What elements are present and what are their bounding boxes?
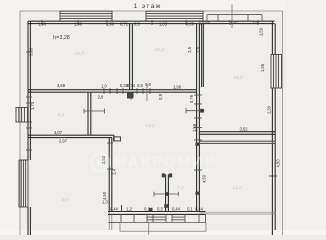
outer site boundary (thin) bbox=[20, 11, 283, 235]
svg-text:0,44: 0,44 bbox=[195, 206, 204, 211]
svg-text:1,50: 1,50 bbox=[259, 27, 264, 36]
hall left wall V-B bbox=[87, 92, 89, 135]
top-right порч band bbox=[207, 15, 262, 22]
svg-text:0,89: 0,89 bbox=[186, 21, 195, 26]
svg-text:0,5: 0,5 bbox=[134, 21, 140, 26]
svg-text:3,07: 3,07 bbox=[54, 130, 63, 135]
svg-text:2,5: 2,5 bbox=[196, 46, 201, 52]
wall H5 bottom of veranda room (light) bbox=[199, 212, 275, 214]
svg-text:15,7: 15,7 bbox=[74, 51, 84, 57]
svg-text:6,3: 6,3 bbox=[58, 112, 65, 118]
svg-text:М: М bbox=[97, 158, 105, 169]
svg-text:1,74: 1,74 bbox=[30, 101, 35, 110]
chimney stack line bbox=[231, 5, 233, 29]
left wall window 2 (tall) bbox=[19, 160, 28, 207]
svg-text:МАКРОМИР: МАКРОМИР bbox=[114, 155, 218, 171]
svg-text:0,9: 0,9 bbox=[137, 83, 143, 88]
faint room area labels bbox=[58, 47, 243, 203]
window top W2 bbox=[146, 11, 203, 21]
H2 end jog bbox=[113, 135, 115, 140]
svg-text:1,65: 1,65 bbox=[260, 63, 265, 72]
svg-text:1,98: 1,98 bbox=[106, 21, 115, 26]
svg-text:1,58: 1,58 bbox=[192, 123, 197, 132]
door jamb line left of porch bbox=[121, 205, 123, 212]
svg-text:4,50: 4,50 bbox=[202, 174, 207, 183]
svg-text:1,2: 1,2 bbox=[126, 206, 132, 211]
svg-text:0,76: 0,76 bbox=[189, 94, 194, 103]
door axis line below H1 bbox=[146, 84, 148, 101]
door cross room b / hall bbox=[84, 109, 105, 114]
svg-text:1,98: 1,98 bbox=[38, 21, 47, 26]
bottom exterior wall H6 bbox=[108, 211, 206, 213]
door cross at shaft V-D bbox=[154, 192, 178, 196]
svg-text:1 этаж: 1 этаж bbox=[133, 3, 161, 10]
svg-text:1,98: 1,98 bbox=[74, 21, 83, 26]
svg-text:0,3: 0,3 bbox=[157, 206, 163, 211]
svg-text:1,0: 1,0 bbox=[101, 84, 107, 89]
svg-text:3,69: 3,69 bbox=[57, 83, 66, 88]
left exterior wall (lower) bbox=[27, 207, 29, 235]
interior wall between room1 and room2 bbox=[129, 24, 131, 90]
door cross hall / right room bbox=[186, 108, 205, 113]
svg-text:0,8: 0,8 bbox=[253, 20, 259, 25]
svg-text:0,9: 0,9 bbox=[145, 82, 151, 87]
svg-text:1,98: 1,98 bbox=[173, 84, 182, 89]
top exterior wall bbox=[28, 20, 275, 22]
svg-text:13,1: 13,1 bbox=[145, 123, 155, 129]
left exterior wall (upper) bbox=[27, 21, 29, 160]
svg-text:14,4: 14,4 bbox=[154, 47, 164, 53]
svg-text:4,50: 4,50 bbox=[102, 191, 107, 200]
horizontal wall H1 bbox=[28, 89, 197, 91]
porch cells bottom bbox=[109, 214, 206, 222]
svg-text:2,5: 2,5 bbox=[187, 46, 192, 52]
right exterior wall bbox=[271, 21, 273, 54]
wall H3 bottom of top-right room bbox=[199, 131, 275, 133]
door pier block bbox=[127, 93, 134, 99]
svg-text:11,2: 11,2 bbox=[232, 185, 241, 191]
svg-text:1,85: 1,85 bbox=[159, 21, 168, 26]
svg-text:16,9: 16,9 bbox=[233, 75, 243, 81]
svg-text:h=3,28: h=3,28 bbox=[53, 35, 70, 41]
window top W1 bbox=[60, 11, 112, 21]
svg-text:0,84: 0,84 bbox=[202, 20, 211, 25]
dimension labels bbox=[38, 20, 260, 212]
svg-text:3,52: 3,52 bbox=[240, 126, 249, 131]
jamb blobs of V-D bbox=[162, 173, 165, 177]
tick marks on walls bbox=[26, 20, 277, 176]
svg-text:1,97: 1,97 bbox=[230, 20, 239, 25]
svg-text:0,9: 0,9 bbox=[158, 93, 163, 99]
horizontal wall H2 bbox=[28, 134, 114, 136]
right wall window bbox=[271, 55, 282, 89]
left wall window 1 bbox=[16, 107, 28, 122]
svg-text:3,55: 3,55 bbox=[29, 47, 34, 56]
jamb blobs on shaft wall bbox=[195, 143, 199, 146]
svg-text:2,97: 2,97 bbox=[59, 138, 68, 143]
svg-text:0,44: 0,44 bbox=[172, 206, 181, 211]
shaft wall V-D in bottom rooms bbox=[165, 175, 167, 212]
svg-text:7,3: 7,3 bbox=[177, 185, 184, 191]
svg-text:0,1: 0,1 bbox=[187, 206, 193, 211]
svg-text:4,50: 4,50 bbox=[276, 159, 281, 168]
shaft wall 2 bbox=[201, 24, 203, 87]
V-C wall between bottom-left room and hall bbox=[108, 138, 110, 212]
porch outer slab bbox=[120, 223, 206, 235]
watermark logo bbox=[92, 153, 110, 171]
svg-text:2,30: 2,30 bbox=[267, 105, 272, 114]
svg-text:0,74: 0,74 bbox=[127, 83, 136, 88]
svg-text:9,4: 9,4 bbox=[62, 197, 69, 203]
shaft wall 1 bbox=[196, 24, 198, 212]
svg-text:0,71: 0,71 bbox=[120, 21, 129, 26]
svg-text:0,1: 0,1 bbox=[144, 206, 150, 211]
svg-text:2,0: 2,0 bbox=[98, 94, 104, 99]
wall H4 top of veranda room bbox=[199, 141, 275, 143]
svg-text:0,44: 0,44 bbox=[110, 206, 119, 211]
